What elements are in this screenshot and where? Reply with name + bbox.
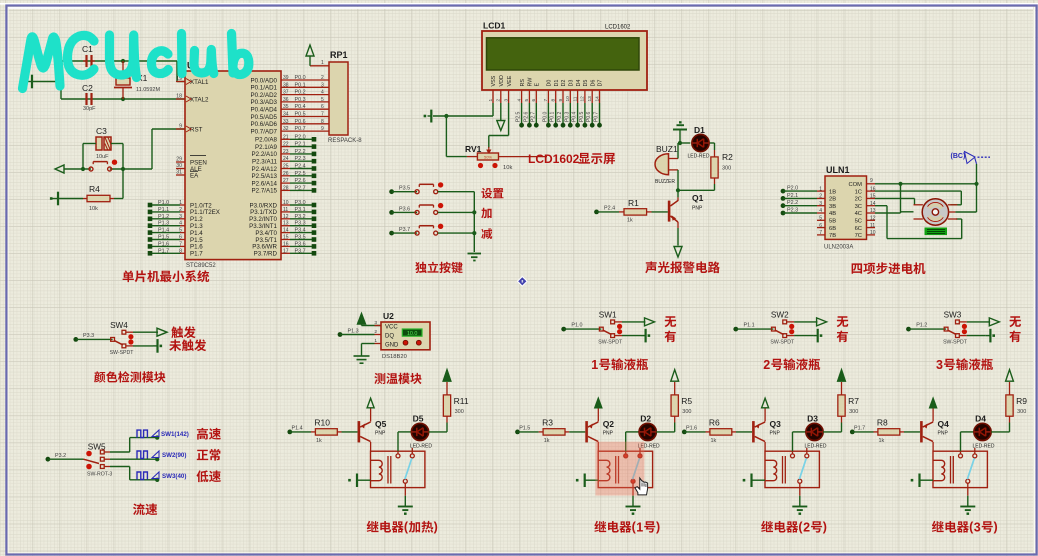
svg-text:P2.1/A9: P2.1/A9 — [255, 144, 278, 151]
wire Q2 collector to relay coil — [597, 442, 599, 451]
svg-text:1k: 1k — [627, 218, 633, 224]
svg-text:4: 4 — [516, 99, 522, 102]
svg-text:P1.3: P1.3 — [158, 221, 169, 227]
svg-text:P1.2: P1.2 — [916, 323, 927, 329]
wire contact to LED D3 — [792, 451, 794, 454]
svg-text:P2.4: P2.4 — [295, 164, 306, 170]
svg-text:P2.3/A11: P2.3/A11 — [252, 159, 278, 166]
svg-text:R8: R8 — [877, 418, 888, 428]
capacitor C1 — [85, 55, 87, 67]
svg-text:4: 4 — [321, 90, 324, 96]
label minimal system — [123, 270, 210, 282]
wire VCC — [361, 324, 363, 326]
label temp module — [374, 373, 421, 384]
wire R7 to power — [841, 382, 843, 395]
svg-text:P2.6/A14: P2.6/A14 — [252, 180, 278, 187]
power arrow (triggered) — [157, 328, 167, 336]
power arrow (R7) — [838, 370, 846, 382]
svg-text:P0.7/AD7: P0.7/AD7 — [251, 128, 278, 135]
ground (relay 1号) — [626, 506, 641, 508]
selection highlight (relay 1) — [595, 442, 644, 496]
svg-text:1k: 1k — [879, 438, 885, 444]
svg-text:D4: D4 — [576, 80, 582, 87]
switch SW2 SW-SPDT — [772, 327, 776, 331]
power arrow (SW3 none) — [989, 318, 999, 326]
relay RL (2号) — [765, 451, 819, 487]
svg-text:P0.5/AD5: P0.5/AD5 — [251, 114, 278, 121]
wire Q4 collector to relay coil — [932, 442, 934, 451]
svg-text:SW1: SW1 — [599, 311, 617, 320]
svg-text:R2: R2 — [722, 152, 733, 162]
wire R11 to power — [446, 382, 448, 395]
svg-text:SW-SPDT: SW-SPDT — [110, 350, 135, 356]
LED D5 — [411, 423, 428, 440]
IC U1 STC89C52 — [185, 71, 281, 260]
svg-text:E: E — [535, 83, 541, 87]
motor green label — [925, 228, 948, 236]
wire GND — [362, 343, 375, 345]
ground (not triggered) — [156, 339, 158, 353]
svg-text:9: 9 — [558, 99, 564, 102]
svg-text:RP1: RP1 — [330, 50, 348, 60]
svg-text:18: 18 — [176, 94, 182, 100]
svg-text:3B: 3B — [829, 204, 836, 210]
pulse source SW2(90) — [137, 451, 147, 459]
svg-text:P3.1: P3.1 — [295, 207, 306, 213]
transistor Q4 PNP — [920, 421, 923, 442]
svg-text:D0: D0 — [547, 80, 553, 87]
svg-text:P1.7: P1.7 — [190, 251, 203, 258]
svg-text:P1.5: P1.5 — [519, 425, 530, 431]
svg-text:D7: D7 — [598, 80, 604, 87]
transistor Q2 PNP — [585, 421, 588, 442]
resistor R1 — [619, 211, 624, 213]
svg-text:300: 300 — [722, 166, 731, 172]
svg-text:P2.4/A12: P2.4/A12 — [252, 166, 278, 173]
wire P2.4 to R1 — [597, 211, 620, 213]
svg-text:5: 5 — [321, 97, 324, 103]
wire P0.7 to RP1 — [281, 130, 329, 132]
svg-text:1B: 1B — [829, 189, 836, 195]
ground (SW1 have) — [644, 329, 646, 343]
svg-text:2B: 2B — [829, 197, 836, 203]
terminal P2.3 (ULN) — [781, 211, 786, 216]
wire P2.3 to ULN — [783, 212, 817, 214]
svg-text:D1: D1 — [554, 80, 560, 87]
svg-text:P0.4: P0.4 — [572, 111, 578, 122]
svg-text:D5: D5 — [413, 414, 424, 424]
svg-text:SW-SPDT: SW-SPDT — [943, 340, 968, 346]
relay group 加热 — [287, 370, 468, 515]
svg-text:10: 10 — [565, 96, 571, 102]
wire COM to motor right-middle — [976, 184, 978, 212]
svg-text:VSS: VSS — [491, 75, 497, 86]
wire P0.5 to RP1 — [281, 116, 329, 118]
wire D5 to R11 — [429, 431, 447, 433]
svg-text:LED-RED: LED-RED — [688, 154, 710, 160]
wire contact to LED D2 — [625, 451, 627, 454]
wire LCD D3 terminal P0.3 — [569, 103, 571, 125]
svg-text:P3.3: P3.3 — [83, 333, 94, 339]
resistor R3 — [539, 431, 543, 433]
svg-text:P3.2: P3.2 — [55, 453, 66, 459]
wire C3 left — [83, 143, 96, 145]
svg-text:R1: R1 — [628, 198, 639, 208]
wire SW3 lower throw — [959, 335, 967, 337]
svg-text:3: 3 — [503, 99, 509, 102]
wire P1.3 to DQ — [340, 334, 375, 336]
wire P3.0 terminal — [281, 204, 290, 206]
wire P3.2 terminal — [281, 218, 290, 220]
svg-text:PNP: PNP — [375, 431, 386, 437]
svg-text:P0.2/AD2: P0.2/AD2 — [251, 92, 278, 99]
label independent buttons — [415, 262, 463, 274]
wire Q3 collector to relay coil — [764, 442, 766, 451]
wire P3.4 terminal — [281, 232, 290, 234]
svg-text:): ) — [656, 520, 660, 534]
terminal P1.4 — [287, 430, 292, 435]
IC ULN1 ULN2003A — [825, 176, 867, 239]
svg-text:PNP: PNP — [603, 431, 614, 437]
svg-text:5B: 5B — [829, 219, 836, 225]
terminal P1.7 — [850, 430, 855, 435]
motor pin stubs — [914, 204, 923, 206]
svg-text:1: 1 — [636, 521, 643, 535]
wire Q3 emitter to power — [764, 408, 766, 422]
svg-text:EA: EA — [190, 172, 199, 179]
svg-text:VCC: VCC — [385, 325, 398, 331]
relay lever (1号) — [633, 458, 640, 479]
svg-text:1: 1 — [591, 358, 598, 372]
wire P3.6 terminal — [281, 245, 290, 247]
svg-text:VDD: VDD — [499, 75, 505, 86]
svg-text:SW3(40): SW3(40) — [162, 473, 186, 480]
svg-text:P2.5/A13: P2.5/A13 — [252, 173, 278, 180]
wire P2.0 to ULN — [783, 190, 817, 192]
ground (alarm, inverted) — [673, 129, 687, 131]
svg-text:LCD1: LCD1 — [483, 21, 505, 31]
power arrow (Q2) — [595, 398, 602, 408]
label relay 3 — [932, 521, 969, 533]
wire SW1 lower throw — [615, 335, 623, 337]
wire button P3.5 to rail — [438, 191, 475, 193]
LED D4 — [974, 423, 991, 440]
wire P3.6 to button — [392, 211, 418, 213]
wire P1.4 to R10 — [290, 431, 311, 433]
relay lever (3号) — [967, 458, 974, 479]
wire LCD RW terminal P2.6 — [528, 103, 530, 125]
terminal P2.2 (ULN) — [781, 203, 786, 208]
wire Q5 collector to relay coil — [370, 442, 372, 451]
resistor R8 — [874, 431, 878, 433]
svg-text:LED-RED: LED-RED — [973, 444, 995, 450]
label low speed — [197, 470, 221, 482]
wire P2.2 terminal — [281, 153, 290, 155]
wire P1.1 to SW2 — [736, 328, 774, 330]
svg-text:R5: R5 — [681, 396, 692, 406]
svg-text:P2.7: P2.7 — [530, 111, 536, 122]
svg-text:P0.3: P0.3 — [295, 97, 306, 103]
terminal P1.6 — [682, 430, 687, 435]
svg-text:9: 9 — [321, 126, 324, 132]
terminal P3.5 — [389, 189, 394, 194]
svg-text:4B: 4B — [829, 211, 836, 217]
svg-text:1k: 1k — [316, 438, 322, 444]
resistor R11 — [443, 395, 450, 416]
svg-text:SW2: SW2 — [771, 311, 789, 320]
power arrow (LCD VDD) — [497, 121, 505, 131]
svg-text:SW1(142): SW1(142) — [161, 431, 189, 438]
svg-text:P3.6: P3.6 — [295, 241, 306, 247]
svg-text:1: 1 — [321, 60, 324, 66]
svg-text:P2.3: P2.3 — [295, 156, 306, 162]
svg-text:3C: 3C — [855, 204, 862, 210]
wire relay common to ground (2号) — [799, 483, 801, 496]
svg-text:C1: C1 — [82, 44, 93, 54]
svg-text:30: 30 — [176, 163, 182, 169]
svg-text:P2.5: P2.5 — [516, 111, 522, 122]
U1 pin 9 RST — [176, 128, 185, 130]
ground (coil 2号) — [750, 474, 752, 488]
wire P2.5 terminal — [281, 175, 290, 177]
svg-text:P3.6: P3.6 — [399, 206, 410, 212]
label relay 1 — [594, 521, 631, 533]
svg-text:10k: 10k — [503, 165, 512, 171]
svg-text:P1.4: P1.4 — [292, 425, 303, 431]
wire P1.5 to R3 — [518, 431, 539, 433]
wire R3 to Q2 — [569, 431, 585, 433]
wire LCD D2 terminal P0.2 — [562, 103, 564, 125]
wire relay common to ground (3号) — [967, 483, 969, 496]
resistor R5 — [671, 395, 678, 416]
wire C1 net — [61, 60, 92, 62]
svg-text:3: 3 — [321, 82, 324, 88]
U1 pin 19 XTAL1 — [176, 81, 185, 83]
svg-text:300: 300 — [682, 409, 691, 415]
svg-text:R6: R6 — [709, 418, 720, 428]
wire P3.1 terminal — [281, 211, 290, 213]
wire Q5 emitter to power — [370, 408, 372, 422]
svg-text:P0.0: P0.0 — [295, 75, 306, 81]
LCD screen — [487, 38, 640, 70]
ground (SW3 have) — [989, 329, 991, 343]
pulse source SW1(142) — [137, 430, 147, 438]
label have (SW3) — [1009, 331, 1020, 343]
svg-text:D5: D5 — [583, 80, 589, 87]
LED D3 — [806, 423, 823, 440]
svg-text:D2: D2 — [561, 80, 567, 87]
wire contact to LED D5 — [397, 451, 399, 454]
svg-text:P2.7: P2.7 — [295, 185, 306, 191]
svg-text:LCD1602: LCD1602 — [528, 152, 580, 166]
svg-text:12: 12 — [580, 96, 586, 102]
wire R5 to power — [674, 382, 676, 395]
svg-text:P0.6: P0.6 — [586, 111, 592, 122]
svg-text:D3: D3 — [569, 80, 575, 87]
label flow speed — [133, 503, 157, 515]
svg-text:XTAL1: XTAL1 — [190, 79, 209, 86]
wire LCD E terminal P2.7 — [535, 103, 537, 125]
LED D2 — [639, 423, 656, 440]
svg-text:P1.6: P1.6 — [686, 425, 697, 431]
relay group 1号 — [515, 370, 692, 515]
wire VDD power — [500, 103, 502, 121]
switch SW4 SW-SPDT — [111, 338, 115, 342]
svg-text:P2.2/A10: P2.2/A10 — [252, 151, 278, 158]
wire P2.4 terminal — [281, 168, 290, 170]
svg-text:C2: C2 — [82, 83, 93, 93]
svg-text:ULN1: ULN1 — [826, 165, 850, 175]
svg-text:Q4: Q4 — [938, 419, 950, 429]
ground (coil 1号) — [584, 474, 586, 488]
label relay heater — [367, 521, 404, 533]
svg-text:COM: COM — [848, 182, 862, 188]
wire P1.4 terminal — [150, 232, 180, 234]
wire P2.6 terminal — [281, 182, 290, 184]
terminal P1.2 (SW3) — [906, 327, 911, 332]
power arrow (R11) — [443, 370, 451, 382]
terminal P3.7 — [389, 231, 394, 236]
svg-text:D1: D1 — [694, 125, 705, 135]
wire VSS to ground — [492, 103, 494, 116]
wire R10 to Q5 — [342, 431, 358, 433]
svg-text:6B: 6B — [829, 226, 836, 232]
svg-text:P2.0: P2.0 — [295, 134, 306, 140]
label not triggered — [169, 339, 206, 351]
svg-text:2: 2 — [321, 75, 324, 81]
push button (P3.7) — [415, 231, 419, 235]
svg-text:P0.6: P0.6 — [295, 119, 306, 125]
U1 pin 30 ALE — [176, 168, 185, 170]
wire 4C to motor left-middle — [875, 212, 901, 214]
svg-text:7C: 7C — [855, 233, 862, 239]
blue origin marker — [517, 276, 528, 287]
wire SW5 pos2 — [104, 458, 110, 460]
svg-text:R11: R11 — [454, 396, 469, 406]
svg-text:BUZ1: BUZ1 — [656, 144, 678, 154]
wire P1.6 terminal — [150, 245, 180, 247]
svg-text:P0.1: P0.1 — [550, 111, 556, 122]
relay RL (1号) — [598, 451, 652, 487]
wire SW5 pos1 — [104, 451, 110, 453]
resistor R10 — [311, 431, 315, 433]
svg-text:31: 31 — [176, 170, 182, 176]
svg-text:4C: 4C — [855, 211, 862, 217]
svg-text:P3.5: P3.5 — [399, 186, 410, 192]
sheet border frame — [0, 3, 1038, 5]
svg-text:1: 1 — [488, 99, 494, 102]
terminal P1.5 — [515, 430, 520, 435]
LED D1 — [692, 134, 709, 151]
svg-text:P1.7: P1.7 — [158, 248, 169, 254]
label normal — [197, 449, 221, 461]
power arrow (Q3) — [762, 398, 769, 408]
wire P3.7 terminal — [281, 252, 290, 254]
svg-text:P0.6/AD6: P0.6/AD6 — [251, 121, 278, 128]
svg-text:3: 3 — [974, 521, 981, 535]
svg-text:Q2: Q2 — [603, 419, 615, 429]
wire SW4 lower throw — [126, 345, 133, 347]
terminal P1.3 — [338, 332, 343, 337]
IC U2 DS18B20 — [381, 322, 430, 350]
ground arrow (Q1) — [674, 247, 682, 258]
wire R1 to Q1 base — [652, 211, 668, 213]
ground (SW2 have) — [817, 329, 819, 343]
ground (relay 加热) — [398, 506, 413, 508]
wire P3.3 terminal — [281, 225, 290, 227]
svg-text:2C: 2C — [855, 197, 862, 203]
wire P3.2 to SW5 — [48, 458, 84, 460]
svg-text:P1.3: P1.3 — [348, 329, 359, 335]
svg-text:PNP: PNP — [692, 206, 703, 212]
relay group 2号 — [682, 370, 859, 515]
power arrow (RP1) — [309, 56, 311, 66]
relay group 3号 — [850, 370, 1027, 515]
svg-text:DS18B20: DS18B20 — [382, 354, 407, 360]
svg-text:LED-RED: LED-RED — [410, 444, 432, 450]
svg-text:): ) — [994, 520, 998, 534]
wire reset row — [64, 168, 91, 170]
label have (SW1) — [665, 331, 676, 343]
svg-text:R10: R10 — [314, 418, 330, 428]
svg-text:P0.5: P0.5 — [579, 111, 585, 122]
svg-text:50%: 50% — [484, 154, 492, 159]
wire C2 net — [61, 98, 92, 100]
buzzer BUZ1 — [655, 154, 669, 175]
svg-text:R4: R4 — [89, 184, 100, 194]
svg-text:P0.2: P0.2 — [295, 90, 306, 96]
relay RL (3号) — [933, 451, 987, 487]
svg-text:8: 8 — [321, 119, 324, 125]
wire R4 to button — [114, 198, 123, 200]
MCUclub logo — [23, 34, 249, 89]
svg-text:9: 9 — [870, 178, 873, 184]
svg-text:5: 5 — [524, 99, 530, 102]
wire SW5 pos3 — [104, 466, 110, 468]
relay contacts (2号) — [791, 454, 795, 458]
wire BUZ1 bottom to node — [677, 170, 679, 190]
svg-text:P0.2: P0.2 — [557, 111, 563, 122]
svg-text:RW: RW — [528, 77, 534, 87]
wire P1.1 terminal — [150, 211, 180, 213]
svg-text:PNP: PNP — [938, 431, 949, 437]
power arrow (U2 VCC) — [358, 314, 366, 325]
wire R2 bottom — [714, 178, 716, 184]
svg-text:U2: U2 — [383, 311, 394, 321]
svg-text:SW2(90): SW2(90) — [162, 452, 186, 459]
svg-text:1: 1 — [374, 338, 377, 344]
svg-text:13: 13 — [587, 96, 593, 102]
svg-text:): ) — [823, 520, 827, 534]
power arrow (R9) — [1006, 370, 1014, 382]
wire VEE to RV1 — [508, 103, 510, 136]
svg-text:3: 3 — [374, 320, 377, 326]
label have (SW2) — [837, 331, 848, 343]
svg-text:8: 8 — [551, 99, 557, 102]
svg-text:GND: GND — [385, 343, 399, 349]
svg-text:6C: 6C — [855, 226, 862, 232]
label triggered — [171, 326, 195, 338]
label minus — [481, 228, 492, 239]
wire Q1 emitter down — [677, 222, 679, 228]
wire P2.1 to ULN — [783, 197, 817, 199]
power arrow (Q4) — [930, 398, 937, 408]
U1 pin 18 XTAL2 — [176, 98, 185, 100]
ground (LCD VSS) — [430, 110, 432, 123]
power arrow (SW1 none) — [645, 318, 655, 326]
svg-text:P1.2: P1.2 — [158, 214, 169, 220]
svg-text:C3: C3 — [96, 126, 107, 136]
